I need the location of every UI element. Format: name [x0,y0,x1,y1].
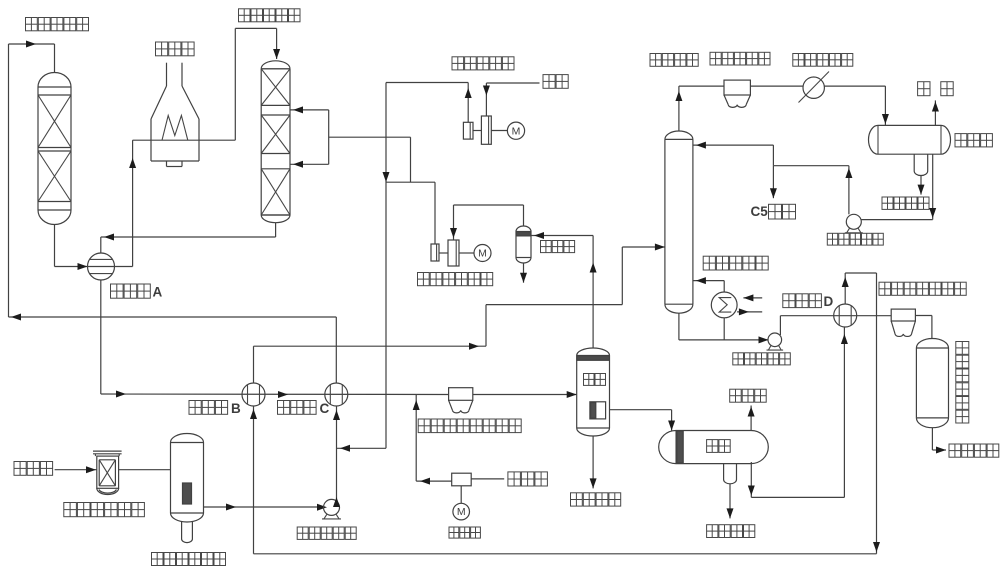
wire injection box to water pump motor [460,486,462,504]
cooler 塔顶后冷器 (circle with diagonal) [799,72,830,103]
label 脱戊烷油 [949,444,999,457]
pump motor 注水泵 [453,503,470,520]
label 新氢压缩机 [452,57,514,70]
label 含硫污水 (HP sep drain) [571,493,621,506]
wire reactor R1 feed line (left loop up) [9,41,55,318]
label 塔顶后冷器 [793,54,853,67]
wire HX-C top outlet to reactor R1 feed (y=317) [9,314,337,384]
wire air cooler to benzene tower [915,316,932,339]
svg-text:A: A [153,285,163,300]
furnace 加热炉 [151,63,199,167]
wire HP separator liquid to LP separator [610,410,676,431]
pump 脱戊烷油泵 [767,333,784,350]
wire feed pump discharge riser to HX-C bottom [333,406,340,507]
wire HX-D top outlet loop to bottom feed line [842,273,880,554]
wire HX-A bottom to HX-B (effluent y=394) [101,280,449,398]
label 气相 [918,82,954,96]
svg-text:C: C [320,401,330,416]
label 换热器D [783,294,834,309]
wire reactor R2 bottom to HX-A top [101,223,276,253]
wire buffer tank to feed pump [204,504,328,511]
wire HP separator bottom drain 含硫污水 [590,436,597,488]
pump 加氢进料泵 [322,499,341,519]
label 塔顶回流泵 [827,233,883,245]
vessel reactor R2 第二反应器 [261,61,290,223]
air-cooler 塔顶空冷器 [724,80,750,107]
wire furnace outlet to reactor R2 top [199,28,280,140]
vessel reactor R1 第一反应器 [38,73,71,225]
wire reflux drum vapor outlet 气相 [932,100,939,125]
label 加热炉 [156,42,195,56]
air-cooler 脱戊烷油空冷器 [891,309,915,336]
wire LP separator liquid to HX-D bottom [748,327,848,497]
compressor 新氢压缩机 [463,116,524,144]
label 含硫污水 (LP sep drain) [707,525,755,538]
label 低分气 [730,389,767,402]
label 原料油 [14,462,53,476]
boot of reflux drum + drain 含硫污水 [914,154,928,194]
wire tower bottoms line to pump [679,313,769,343]
wire HP separator overhead to knockout drum [531,232,597,348]
vessel LP separator 低分 [659,431,769,464]
pump 塔顶回流泵 [845,214,863,233]
label 低分 (inside vessel) [707,440,731,453]
heat-exchanger HX-C 换热器C [325,383,348,406]
label 原料油缓冲罐 [152,553,226,566]
label C5组分 [751,204,796,219]
svg-text:M: M [512,125,521,137]
svg-text:M: M [478,248,487,260]
label 高分 (inside vessel) [584,374,606,386]
label 脱戊烷油泵 [733,353,791,365]
wire new-H2 compressor discharge (to x=386 drop) [383,83,472,449]
wire reboiler heating medium in/out [737,294,762,315]
wire tower overhead to air cooler [675,86,724,131]
svg-text:M: M [457,506,466,518]
label 苯抽提蒸馏塔 (vertical) [956,342,969,424]
column 脱戊烷塔 [665,131,693,313]
label 换热器B [189,401,241,417]
reboiler 塔底再沸器 [711,292,737,318]
wire depentanizer feed (from HX-B via y=346/y=305) [254,244,665,384]
wire feed oil to filter [55,466,97,473]
label 原料油过滤器 [64,503,145,517]
wire effluent HX-B to HX-C [278,391,288,398]
wire reactor R2 quench bracket [290,106,411,182]
svg-text:D: D [824,294,834,309]
wire HX-D through-line to depentanized oil air cooler [0,0,1,1]
label 注水泵 [449,527,480,538]
wire bottoms pump discharge to HX-D [780,316,891,335]
heat-exchanger HX-A 换热器A [88,253,115,280]
label 脱戊烷油空冷器 [879,282,966,295]
wire filter to buffer tank [119,469,171,471]
wire knockout drum top to recycle compressor suction [450,205,524,240]
vessel knockout drum 分液罐 [516,226,531,263]
label 塔底再沸器 [703,256,768,270]
wire hydrogen join line to feed pump riser (y=448) [337,445,387,452]
label 加氢进料泵 [297,527,356,539]
column 苯抽提蒸馏塔 [916,339,948,428]
filter 原料油过滤器 [93,451,122,494]
label 第一反应器 [26,18,89,31]
compressor 循环氢压缩机 [431,240,491,266]
label 反应流出物空冷器 [418,419,521,433]
heat-exchanger HX-D 换热器D [834,304,857,327]
vessel reflux drum 回流罐 [869,125,951,154]
heat-exchanger HX-B 换热器B [242,383,265,406]
wire reflux pump discharge / C5 branch / reflux to tower [693,142,853,215]
wire bottom return line to HX-B (y=554) [250,406,877,554]
wire water injection to effluent line [413,395,452,485]
label 分液罐 [541,241,575,253]
label 软化水 [508,472,548,486]
svg-text:B: B [231,401,241,416]
svg-text:C5: C5 [751,204,769,219]
vessel HP separator 高分 [577,348,610,436]
label 含硫污水 (reflux drum drain) [882,197,929,209]
label 新氢 [543,75,568,89]
wire reboiler return to tower [693,277,724,292]
label 回流罐 [955,134,992,147]
boot of LP separator + drain 含硫污水 [724,464,737,519]
wire HX-A through-line to furnace riser [88,140,152,266]
label 塔顶空冷器 [710,52,770,65]
wire effluent HX-C to air cooler [0,0,1,1]
wire knockout drum bottom drain [520,263,527,283]
wire overhead air cooler to after-cooler [750,85,803,87]
wire LP separator gas outlet 低分气 [748,406,755,431]
wire air cooler to HP separator [473,391,577,398]
wire benzene tower bottom outlet 脱戊烷油 [932,428,946,454]
wire softened water inlet 软化水 [471,478,504,480]
wire reactor R1 bottom outlet to HX-A [55,225,88,271]
air-cooler 反应流出物空冷器 [449,388,473,413]
label 换热器C [278,401,330,417]
label 脱戊烷塔 [650,54,698,67]
label 第二反应器 [239,9,301,22]
wire reflux drum liquid to reflux pump [861,154,936,219]
vessel buffer tank 原料油缓冲罐 [171,434,204,543]
injection point box 注水 [452,473,472,486]
label 换热器A [111,284,163,300]
wire after-cooler to reflux drum [824,86,889,125]
wire recycle compressor discharge riser [386,182,435,244]
label 循环氢压缩机 [418,273,493,286]
wire new hydrogen suction 新氢 [483,83,540,116]
